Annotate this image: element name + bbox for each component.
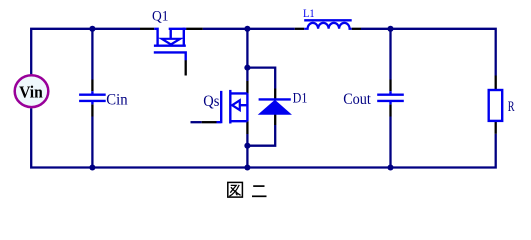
pin Q1 source black xyxy=(186,28,203,30)
svg-text:Cin: Cin xyxy=(106,92,128,109)
capacitor Cin plates xyxy=(79,95,106,101)
caption character tu (figure) xyxy=(228,182,243,197)
transistor Qs source stub xyxy=(230,120,247,122)
resistor R body xyxy=(489,90,503,121)
pin Cin bottom black xyxy=(91,104,93,116)
transistor Qs arrow triangle xyxy=(232,100,240,110)
node dot bottom rail Cin xyxy=(89,164,95,170)
transistor Q1 body stub xyxy=(169,29,171,39)
transistor Qs gate plate xyxy=(217,91,222,123)
caption character er (two) xyxy=(252,186,267,196)
pin Q1 gate black dangling xyxy=(185,60,187,76)
pin Cin top black xyxy=(91,80,93,92)
transistor Q1 gate plate and lead xyxy=(154,52,186,60)
diode D1 triangle xyxy=(259,100,291,114)
wire left rail below Vin, bottom rail, right rail up to R xyxy=(31,108,496,167)
pin Qs gate black xyxy=(202,121,217,123)
inductor L1 core bar xyxy=(304,19,352,21)
transistor Q1 body-source top bar xyxy=(169,28,186,30)
transistor Q1 source leg xyxy=(183,28,185,46)
node dot top rail switch node xyxy=(244,26,250,32)
capacitor Cin top stub xyxy=(91,91,93,93)
svg-text:Vin: Vin xyxy=(19,82,43,101)
pin L1 left black xyxy=(295,28,304,30)
pin L1 right black xyxy=(352,28,361,30)
transistor Q1 arrow triangle xyxy=(162,39,180,45)
transistor Q1 channel bar xyxy=(154,45,186,47)
wire top rail Q1 to L1 xyxy=(203,28,295,30)
wire Qs gate lead xyxy=(191,121,202,123)
node dot bottom rail Cout xyxy=(387,164,393,170)
transistor Q1 drain leg xyxy=(154,28,159,46)
pin Cout bottom black xyxy=(389,104,391,116)
node dot bottom rail switch node xyxy=(244,164,250,170)
wire switch node vertical lower xyxy=(246,134,248,168)
pin Qs drain black xyxy=(246,81,248,93)
wire D1 branch top xyxy=(247,68,275,89)
svg-text:D1: D1 xyxy=(293,91,308,107)
wire Cin branch lower xyxy=(91,117,93,168)
wire top rail left from Vin corner to Q1 xyxy=(31,29,140,75)
diode D1 cathode bar xyxy=(259,98,291,100)
pin R top black xyxy=(495,76,497,90)
node dot D1 bottom junction xyxy=(244,143,250,149)
source Vin circle xyxy=(15,75,49,107)
pin D1 anode black xyxy=(274,114,276,125)
svg-text:R: R xyxy=(508,99,515,115)
svg-text:L1: L1 xyxy=(303,6,315,20)
capacitor Cout top stub xyxy=(389,91,391,93)
node dot D1 top junction xyxy=(244,65,250,71)
transistor Qs body stub xyxy=(240,104,248,106)
wire Cout branch upper xyxy=(389,29,391,80)
wire top rail L1 to right corner and right rail down xyxy=(361,29,496,76)
pin D1 cathode black xyxy=(274,89,276,99)
transistor Qs drain stub xyxy=(230,92,247,94)
inductor L1 winding humps xyxy=(304,23,352,29)
capacitor Cin bottom stub xyxy=(91,102,93,104)
pin Q1 drain black xyxy=(140,28,154,30)
wire switch node vertical upper xyxy=(246,29,248,81)
wire Cout branch lower xyxy=(389,117,391,168)
pin R bottom black xyxy=(495,121,497,134)
svg-text:Cout: Cout xyxy=(343,91,371,108)
svg-text:Qs: Qs xyxy=(203,93,219,110)
capacitor Cout bottom stub xyxy=(389,102,391,104)
wire Cin branch upper xyxy=(91,29,93,80)
pin Qs source black xyxy=(246,121,248,134)
capacitor Cout plates xyxy=(377,95,404,101)
transistor Qs body-source tie vertical xyxy=(246,93,248,121)
node dot top rail Cin xyxy=(89,26,95,32)
pin Cout top black xyxy=(389,80,391,92)
svg-text:Q1: Q1 xyxy=(152,9,169,25)
wire D1 branch bottom xyxy=(247,125,275,146)
node dot top rail Cout xyxy=(387,26,393,32)
transistor Qs channel bar xyxy=(229,90,231,124)
